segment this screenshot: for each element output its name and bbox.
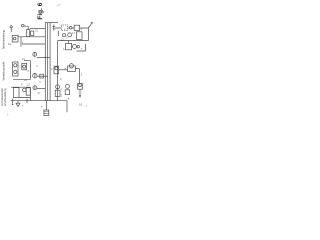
- svg-text:47: 47: [57, 4, 62, 8]
- svg-text:2: 2: [61, 88, 63, 91]
- svg-text:+: +: [22, 103, 24, 107]
- svg-text:18: 18: [79, 103, 83, 107]
- svg-text:4: 4: [51, 67, 53, 71]
- svg-text:13: 13: [72, 31, 75, 35]
- svg-text:4: 4: [86, 104, 88, 108]
- svg-text:F: F: [40, 80, 42, 84]
- svg-text:Fig. 6: Fig. 6: [37, 2, 44, 19]
- svg-text:9: 9: [66, 37, 68, 40]
- svg-text:6: 6: [63, 47, 65, 51]
- svg-text:+: +: [41, 105, 43, 109]
- svg-text:4,: 4,: [68, 97, 71, 101]
- svg-text:12: 12: [27, 83, 30, 87]
- svg-text:6: 6: [28, 69, 30, 73]
- svg-text:15: 15: [35, 29, 39, 33]
- svg-text:2: 2: [61, 95, 63, 98]
- svg-text:2: 2: [81, 73, 83, 77]
- svg-text:5: 5: [7, 114, 9, 117]
- svg-text:12,: 12,: [8, 42, 12, 46]
- svg-text:Teilnehmerleitung: Teilnehmerleitung: [3, 30, 6, 49]
- svg-text:7: 7: [22, 41, 24, 45]
- svg-text:anschlussleitung: anschlussleitung: [4, 88, 7, 106]
- svg-text:25: 25: [24, 78, 27, 82]
- svg-text:,: ,: [10, 80, 11, 83]
- svg-text:21: 21: [22, 57, 25, 61]
- svg-text:F: F: [37, 64, 39, 68]
- svg-text:9: 9: [60, 77, 62, 81]
- svg-text:9: 9: [21, 83, 23, 87]
- svg-text:Vermittlungsstelle: Vermittlungsstelle: [3, 61, 6, 80]
- svg-text:17: 17: [38, 91, 41, 95]
- svg-text:4: 4: [81, 27, 83, 31]
- svg-text:7: 7: [81, 47, 83, 51]
